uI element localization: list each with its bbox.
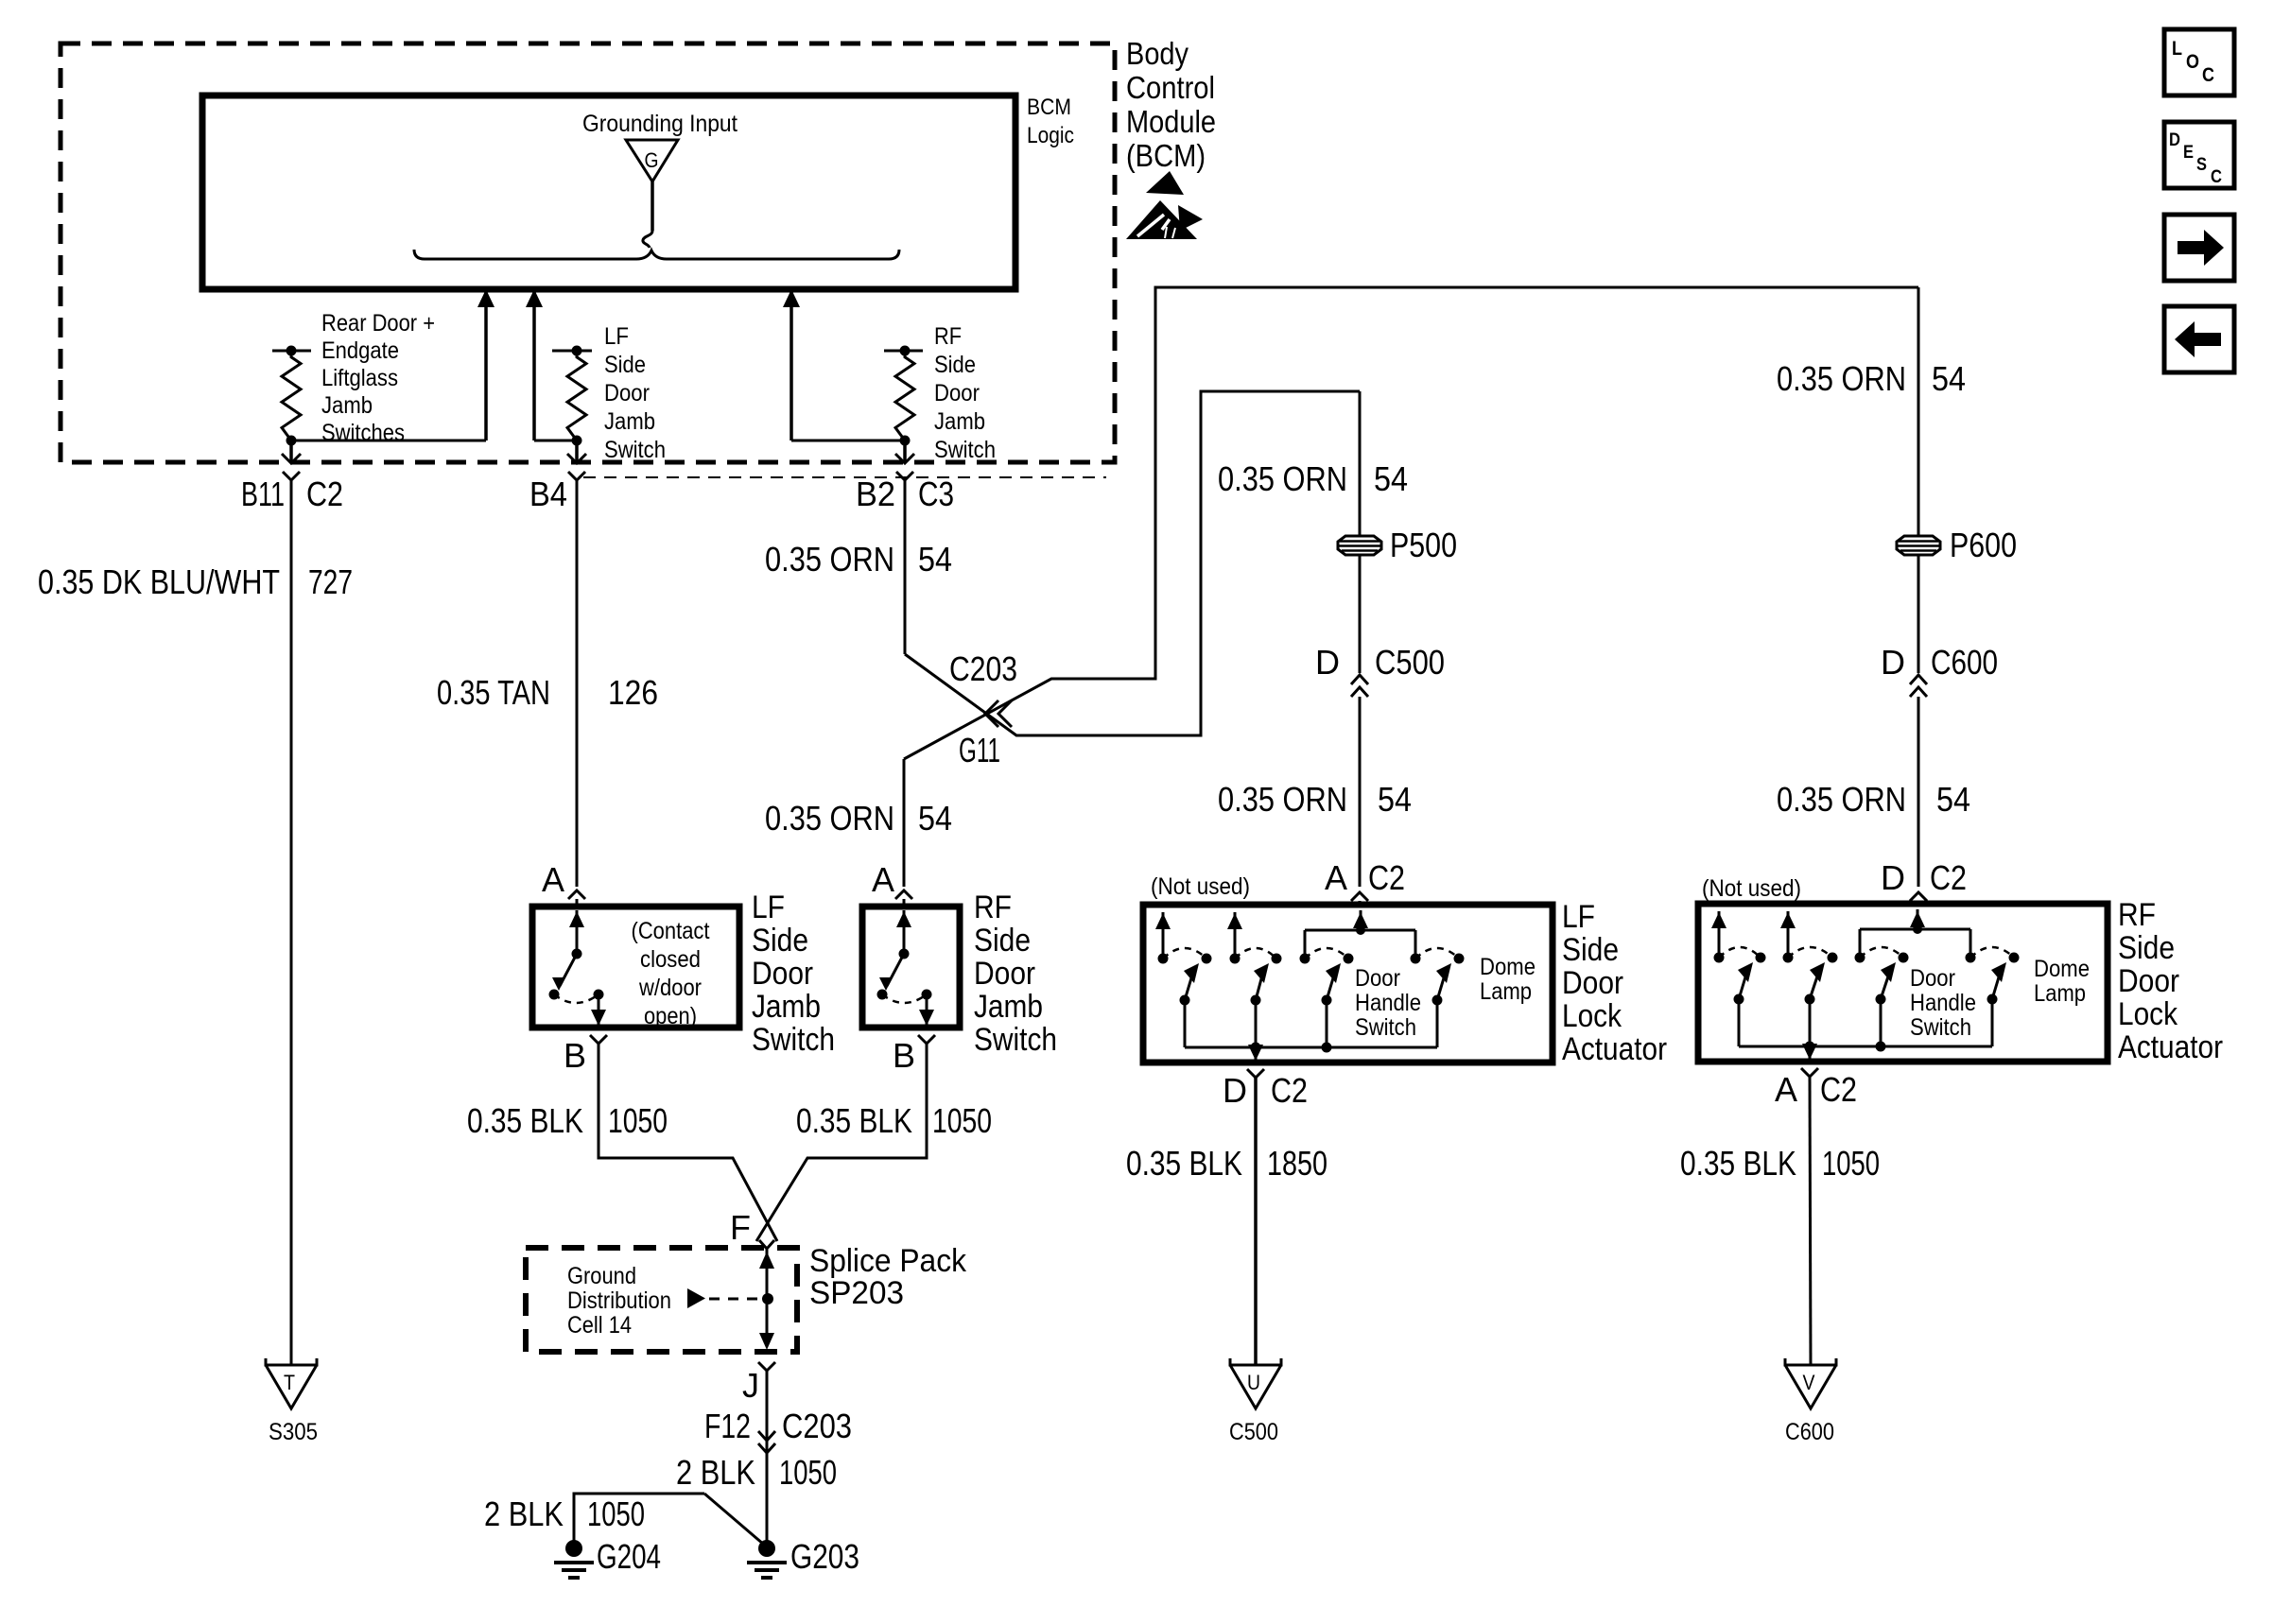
svg-text:P500: P500 — [1390, 526, 1457, 564]
svg-text:(Not used): (Not used) — [1702, 875, 1801, 902]
svg-text:RF: RF — [2118, 897, 2156, 933]
ground G203 — [758, 1540, 775, 1557]
wire 0.35 ORN 54 (C203 to P500) — [1359, 391, 1362, 536]
connector A below RF actuator — [1801, 1068, 1818, 1077]
RF door lock actuator internals — [1718, 911, 1721, 958]
svg-text:C203: C203 — [949, 649, 1017, 688]
svg-text:Dome: Dome — [1480, 954, 1536, 980]
Splice Pack SP203 dashed box — [526, 1248, 797, 1352]
svg-text:Lock: Lock — [1562, 998, 1622, 1034]
LF door lock actuator box — [1143, 905, 1553, 1063]
svg-text:L: L — [2172, 38, 2182, 60]
svg-text:Side: Side — [1562, 932, 1619, 968]
svg-text:Rear Door +: Rear Door + — [321, 310, 435, 337]
svg-text:0.35 ORN: 0.35 ORN — [1777, 359, 1906, 398]
svg-text:Grounding Input: Grounding Input — [582, 111, 737, 137]
svg-text:A: A — [1775, 1070, 1797, 1109]
wire J to G203 — [766, 1371, 769, 1546]
svg-text:0.35 BLK: 0.35 BLK — [796, 1101, 912, 1140]
RF door lock actuator box — [1698, 904, 2108, 1062]
svg-text:G: G — [645, 148, 659, 172]
svg-text:Switch: Switch — [1355, 1014, 1416, 1041]
svg-text:LF: LF — [604, 323, 629, 350]
svg-text:C600: C600 — [1785, 1419, 1834, 1445]
svg-text:Side: Side — [2118, 930, 2175, 966]
LF door lock actuator internals — [1162, 912, 1165, 959]
svg-text:C2: C2 — [1820, 1070, 1857, 1109]
svg-text:Switch: Switch — [1910, 1014, 1971, 1041]
svg-text:Switch: Switch — [934, 437, 996, 463]
svg-text:0.35 ORN: 0.35 ORN — [765, 799, 894, 838]
wire P600 to C600 — [1917, 555, 1920, 673]
prev-page arrow icon — [2164, 306, 2234, 372]
svg-text:D: D — [2169, 130, 2180, 150]
connector C3 thin dashed line — [583, 476, 1106, 478]
svg-text:F12: F12 — [704, 1407, 751, 1445]
svg-text:1050: 1050 — [1822, 1144, 1880, 1183]
svg-text:54: 54 — [918, 540, 952, 579]
svg-text:(BCM): (BCM) — [1126, 138, 1206, 173]
LF Side Door Jamb Switch box — [532, 907, 739, 1028]
BCM Logic box — [202, 95, 1015, 289]
connector at RF jamb A — [895, 890, 912, 899]
DESC icon box — [2164, 122, 2234, 188]
grommet P500 — [1338, 536, 1381, 555]
LF jamb switch internals — [576, 910, 579, 954]
svg-text:Jamb: Jamb — [321, 392, 373, 419]
svg-text:B: B — [564, 1036, 586, 1075]
svg-text:Jamb: Jamb — [604, 408, 655, 435]
svg-text:C2: C2 — [306, 475, 343, 513]
svg-text:C500: C500 — [1375, 643, 1445, 682]
svg-text:Switch: Switch — [974, 1022, 1057, 1058]
ground G204 — [565, 1540, 582, 1557]
svg-text:Handle: Handle — [1910, 990, 1976, 1016]
svg-text:54: 54 — [918, 799, 952, 838]
connector at RF actuator D — [1910, 892, 1927, 901]
wire 0.35 BLK 1050 (LF jamb B) — [599, 1044, 777, 1241]
svg-text:J: J — [742, 1366, 759, 1405]
C203 crossing chevrons — [985, 700, 998, 727]
svg-text:LF: LF — [752, 890, 785, 925]
svg-text:D: D — [1315, 643, 1340, 682]
svg-text:B11: B11 — [241, 475, 285, 513]
wire 0.35 DK BLU/WHT 727 (B11 to S305) — [290, 480, 293, 1365]
svg-text:G204: G204 — [597, 1537, 661, 1576]
svg-text:C500: C500 — [1229, 1419, 1278, 1445]
svg-text:2 BLK: 2 BLK — [484, 1494, 564, 1533]
svg-text:C2: C2 — [1271, 1071, 1308, 1110]
svg-text:closed: closed — [640, 946, 701, 973]
svg-text:E: E — [2183, 143, 2194, 163]
svg-text:C2: C2 — [1930, 858, 1967, 897]
svg-text:C3: C3 — [918, 475, 954, 513]
svg-text:D: D — [1881, 643, 1905, 682]
wire 0.35 TAN 126 (B4 to LF jamb switch A) — [576, 480, 579, 887]
svg-text:S: S — [2196, 155, 2207, 175]
svg-text:1850: 1850 — [1267, 1144, 1327, 1183]
svg-text:Jamb: Jamb — [974, 989, 1043, 1025]
svg-text:G11: G11 — [959, 731, 1000, 769]
svg-text:Side: Side — [974, 923, 1031, 959]
connector J below SP203 — [758, 1362, 775, 1371]
LOC icon box — [2164, 29, 2234, 95]
wire 0.35 BLK 1050 (RF jamb B) — [756, 1044, 927, 1241]
svg-text:Handle: Handle — [1355, 990, 1421, 1016]
svg-text:Lamp: Lamp — [1480, 978, 1532, 1005]
svg-text:C: C — [2202, 64, 2214, 86]
off-page connector V C600 — [1785, 1358, 1836, 1408]
wire: rear-door resistor to BCM logic — [291, 440, 486, 442]
branch to G204 — [574, 1494, 704, 1541]
svg-text:Door: Door — [1355, 965, 1400, 992]
wire 0.35 ORN 54 (C600 to RF actuator D) — [1917, 697, 1920, 887]
svg-text:Liftglass: Liftglass — [321, 365, 398, 391]
svg-text:RF: RF — [934, 323, 962, 350]
svg-text:A: A — [1325, 858, 1347, 897]
svg-text:LF: LF — [1562, 899, 1595, 935]
svg-text:RF: RF — [974, 890, 1012, 925]
svg-text:2 BLK: 2 BLK — [676, 1453, 755, 1492]
svg-text:C600: C600 — [1931, 643, 1998, 682]
ground distribution pointer — [687, 1288, 705, 1308]
wire: B2 to LF actuator branch (via C203) — [905, 391, 1360, 735]
off-page connector U C500 — [1230, 1358, 1281, 1408]
wire: RF resistor to BCM logic — [791, 440, 905, 442]
svg-text:Distribution: Distribution — [567, 1287, 671, 1314]
ESD susceptibility symbol — [1146, 171, 1184, 195]
off-page connector T S305 — [266, 1358, 317, 1408]
svg-text:Jamb: Jamb — [752, 989, 821, 1025]
svg-text:A: A — [872, 860, 894, 899]
svg-text:T: T — [284, 1371, 295, 1394]
svg-text:Lamp: Lamp — [2034, 980, 2086, 1007]
svg-text:Switch: Switch — [752, 1022, 835, 1058]
svg-text:0.35 ORN: 0.35 ORN — [1777, 780, 1906, 819]
svg-text:O: O — [2186, 51, 2199, 73]
svg-text:(Not used): (Not used) — [1151, 873, 1250, 900]
resistor: LF Side Door Jamb Switch (BCM internal) — [552, 350, 592, 353]
svg-text:C: C — [2211, 167, 2222, 187]
svg-text:Body: Body — [1126, 36, 1189, 71]
svg-text:Splice Pack: Splice Pack — [809, 1243, 967, 1279]
connector at LF jamb A — [568, 890, 585, 899]
svg-text:BCM: BCM — [1027, 95, 1071, 120]
grounding input triangle G — [626, 140, 678, 181]
svg-text:Logic: Logic — [1027, 123, 1074, 148]
RF Side Door Jamb Switch box — [862, 907, 960, 1028]
RF jamb switch internals — [903, 910, 906, 954]
resistor: RF Side Door Jamb Switch (BCM internal) — [884, 350, 923, 353]
wire: RF jamb A to RF actuator branch (via C203) — [904, 287, 1918, 759]
svg-text:S305: S305 — [269, 1419, 318, 1445]
wire 0.35 ORN 54 (C203 to P600) — [1917, 287, 1920, 536]
wire + arrow: node B2 exit — [903, 441, 907, 461]
svg-text:(Contact: (Contact — [632, 918, 710, 944]
svg-text:54: 54 — [1932, 359, 1966, 398]
svg-text:Side: Side — [934, 352, 976, 378]
BCM outer dashed box — [61, 43, 1115, 462]
svg-text:54: 54 — [1374, 459, 1408, 498]
svg-text:U: U — [1247, 1371, 1260, 1394]
svg-text:Door: Door — [974, 956, 1035, 992]
wire + arrow: node B11 exit — [289, 441, 293, 461]
svg-text:C203: C203 — [782, 1407, 852, 1445]
wire 0.35 BLK 1850 to C500 — [1254, 1078, 1258, 1365]
svg-text:Control: Control — [1126, 70, 1215, 105]
wire 0.35 ORN 54 (C500 to LF actuator A) — [1359, 697, 1362, 887]
resistor: Rear Door + Endgate Liftglass Jamb Switches — [272, 350, 311, 353]
svg-text:54: 54 — [1936, 780, 1970, 819]
svg-text:Side: Side — [604, 352, 646, 378]
svg-text:Door: Door — [604, 380, 650, 406]
svg-text:Actuator: Actuator — [1562, 1031, 1667, 1067]
svg-text:Side: Side — [752, 923, 808, 959]
svg-text:V: V — [1803, 1371, 1815, 1394]
svg-text:SP203: SP203 — [809, 1275, 904, 1311]
svg-text:G203: G203 — [790, 1537, 859, 1576]
svg-text:Switches: Switches — [321, 420, 405, 446]
svg-text:Ground: Ground — [567, 1263, 636, 1289]
wire 0.35 ORN 54 (C203 to RF jamb A) — [903, 759, 906, 887]
wire: LF resistor to BCM logic — [534, 440, 577, 442]
svg-text:P600: P600 — [1950, 526, 2017, 564]
wire 0.35 ORN 54 (B2 to C203) — [904, 480, 907, 654]
svg-text:0.35 BLK: 0.35 BLK — [1680, 1144, 1796, 1183]
grounding input stem and hook — [651, 181, 654, 231]
wire 0.35 BLK 1050 to C600 — [1810, 1077, 1811, 1365]
svg-text:D: D — [1881, 858, 1905, 897]
svg-text:1050: 1050 — [608, 1101, 668, 1140]
svg-text:0.35 BLK: 0.35 BLK — [1126, 1144, 1242, 1183]
svg-text:Door: Door — [2118, 963, 2179, 999]
wire + arrow: node B4 exit — [575, 441, 579, 461]
wire P500 to C500 — [1359, 555, 1362, 673]
connector at LF actuator A — [1351, 892, 1368, 901]
connector F12 C203 double chevron — [758, 1431, 775, 1441]
svg-text:Door: Door — [1562, 965, 1623, 1001]
svg-text:1050: 1050 — [932, 1101, 992, 1140]
svg-text:Dome: Dome — [2034, 956, 2090, 982]
svg-text:F: F — [730, 1208, 751, 1247]
svg-text:0.35 BLK: 0.35 BLK — [467, 1101, 583, 1140]
svg-text:open): open) — [644, 1003, 697, 1029]
svg-text:0.35 TAN: 0.35 TAN — [437, 673, 550, 712]
svg-text:C2: C2 — [1368, 858, 1405, 897]
svg-text:w/door: w/door — [638, 975, 702, 1001]
svg-text:1050: 1050 — [587, 1494, 645, 1533]
next-page arrow icon — [2164, 215, 2234, 281]
svg-text:Endgate: Endgate — [321, 337, 399, 364]
connector C500 chevrons — [1351, 675, 1368, 684]
svg-text:Door: Door — [752, 956, 813, 992]
connector D below LF actuator — [1247, 1069, 1264, 1078]
svg-text:Switch: Switch — [604, 437, 666, 463]
connector B below RF jamb switch — [918, 1035, 935, 1044]
svg-text:0.35 ORN: 0.35 ORN — [1218, 780, 1347, 819]
svg-text:D: D — [1223, 1071, 1247, 1110]
svg-text:727: 727 — [308, 562, 353, 601]
svg-text:B4: B4 — [529, 475, 567, 513]
svg-text:Lock: Lock — [2118, 996, 2178, 1032]
svg-text:Actuator: Actuator — [2118, 1029, 2223, 1065]
connector B below LF jamb switch — [590, 1035, 607, 1044]
svg-text:B2: B2 — [856, 475, 895, 513]
svg-text:126: 126 — [608, 673, 658, 712]
svg-text:A: A — [542, 860, 564, 899]
svg-text:Door: Door — [1910, 965, 1955, 992]
grommet P600 — [1897, 536, 1940, 555]
grounding input brace — [414, 250, 899, 259]
connector C600 chevrons — [1910, 675, 1927, 684]
SP203 internal wire — [766, 1250, 769, 1346]
svg-text:0.35 DK BLU/WHT: 0.35 DK BLU/WHT — [38, 562, 280, 601]
svg-text:Cell 14: Cell 14 — [567, 1312, 632, 1339]
svg-text:54: 54 — [1378, 780, 1412, 819]
svg-text:Jamb: Jamb — [934, 408, 985, 435]
svg-text:Door: Door — [934, 380, 980, 406]
svg-text:0.35 ORN: 0.35 ORN — [1218, 459, 1347, 498]
svg-text:B: B — [893, 1036, 915, 1075]
svg-text:Module: Module — [1126, 104, 1216, 139]
svg-text:0.35 ORN: 0.35 ORN — [765, 540, 894, 579]
svg-text:1050: 1050 — [779, 1453, 837, 1492]
